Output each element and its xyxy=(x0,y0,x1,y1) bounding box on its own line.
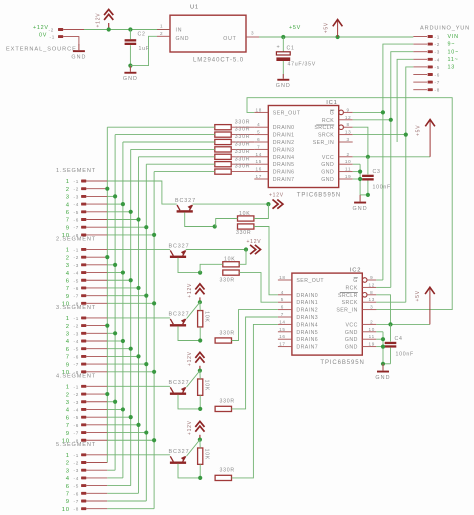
node junction C3 bottom xyxy=(366,193,370,197)
svg-text:ARDUINO_YUN: ARDUINO_YUN xyxy=(420,26,470,32)
wire 5.SEGMENT pin -8 to bus 7 xyxy=(107,508,154,510)
node junction IC1 RCK / 10~ bus xyxy=(389,118,393,122)
svg-text:GND: GND xyxy=(123,76,138,82)
svg-text:1: 1 xyxy=(66,179,70,185)
svg-text:C1: C1 xyxy=(287,45,295,51)
svg-text:BC327: BC327 xyxy=(169,449,190,455)
wire 1.SEGMENT pin -2 to bus 1 xyxy=(106,188,108,190)
wire 5.SEGMENT pin -5 to bus 4 xyxy=(107,485,130,487)
svg-text:G: G xyxy=(353,278,358,284)
svg-text:4: 4 xyxy=(281,290,284,295)
svg-text:18: 18 xyxy=(279,275,286,280)
svg-text:3: 3 xyxy=(347,137,350,142)
pin 16 of IC2 xyxy=(278,338,292,340)
pin 10 of IC2 xyxy=(362,331,376,333)
svg-text:10: 10 xyxy=(62,507,70,513)
svg-text:1: 1 xyxy=(66,316,70,322)
svg-text:10K: 10K xyxy=(203,311,209,322)
resistor 10K Q1 pullup xyxy=(238,216,254,221)
node junction bus 4 / 4.SEGMENT pin -5 xyxy=(129,415,133,419)
wire 5.SEGMENT common to Q5 collector xyxy=(107,454,170,456)
node junction bus 7 / 3.SEGMENT pin -8 xyxy=(152,370,156,374)
node junction C4 bottom xyxy=(381,362,385,366)
svg-text:SER_IN: SER_IN xyxy=(336,308,357,314)
svg-text:8: 8 xyxy=(347,122,350,127)
svg-text:TPIC6B595N: TPIC6B595N xyxy=(297,192,341,198)
svg-text:-2: -2 xyxy=(74,392,80,397)
pin 5 of IC2 xyxy=(278,301,292,303)
resistor R4 330R segment bank xyxy=(215,147,231,152)
svg-text:330R: 330R xyxy=(235,156,250,162)
svg-text:13: 13 xyxy=(368,297,375,302)
wire bus column 3 vertical xyxy=(122,142,124,478)
wire bus column 2 vertical xyxy=(114,135,116,471)
pin 2 +12V of EXTERNAL_SOURCE xyxy=(58,28,63,31)
pin 1 0V of EXTERNAL_SOURCE xyxy=(58,35,63,38)
svg-text:VCC: VCC xyxy=(345,322,357,328)
svg-text:GND: GND xyxy=(345,337,358,343)
node junction Q5 +12V xyxy=(198,438,202,442)
pin 13 of IC1 xyxy=(339,134,353,136)
svg-text:-6: -6 xyxy=(74,354,80,359)
wire bus column 5 vertical xyxy=(138,157,140,494)
svg-text:19: 19 xyxy=(345,174,352,179)
svg-text:SRCK: SRCK xyxy=(318,133,334,139)
capacitor C1 47uF/35V polarized xyxy=(282,37,284,52)
svg-text:-4: -4 xyxy=(74,339,80,344)
pin 6 of IC1 xyxy=(254,141,268,143)
node junction bus 4 / 3.SEGMENT pin -5 xyxy=(129,347,133,351)
svg-text:47uF/35V: 47uF/35V xyxy=(288,62,317,68)
node junction bus 4 / 2.SEGMENT pin -5 xyxy=(129,278,133,282)
wire Q4 330R to IC2 drain xyxy=(232,317,278,409)
wire Q4 base xyxy=(178,395,200,409)
pin 11 of IC2 xyxy=(362,338,376,340)
node junction Q2 emitter +12V xyxy=(244,247,248,251)
svg-text:DRAIN0: DRAIN0 xyxy=(273,125,295,131)
svg-text:GND: GND xyxy=(321,177,334,183)
svg-text:12: 12 xyxy=(368,282,375,287)
svg-text:2: 2 xyxy=(66,392,70,398)
svg-text:-2: -2 xyxy=(435,42,441,47)
node junction bus 1 / 3.SEGMENT pin -2 xyxy=(105,324,109,328)
svg-text:GND: GND xyxy=(321,162,334,168)
svg-text:RCK: RCK xyxy=(345,285,357,291)
svg-text:GND: GND xyxy=(345,345,358,351)
svg-text:6: 6 xyxy=(66,278,70,284)
svg-text:11: 11 xyxy=(369,334,375,339)
svg-text:9: 9 xyxy=(347,107,350,112)
svg-text:-3: -3 xyxy=(74,263,80,268)
svg-text:2: 2 xyxy=(370,319,373,324)
wire IC2 SRCLR tie to VCC xyxy=(376,295,390,325)
svg-text:7: 7 xyxy=(281,312,284,317)
wire resistor R5 to IC1 DRAIN4 xyxy=(231,156,254,158)
wire 2.SEGMENT pin -4 to bus 3 xyxy=(107,272,123,274)
svg-text:7: 7 xyxy=(66,492,70,498)
svg-text:9: 9 xyxy=(66,499,70,505)
wire resistor R7 to bus column 7 xyxy=(154,171,215,173)
svg-text:-2: -2 xyxy=(49,28,55,33)
svg-text:4: 4 xyxy=(66,271,70,277)
svg-text:-7: -7 xyxy=(74,431,80,436)
svg-text:BC327: BC327 xyxy=(175,198,196,204)
resistor 10K Q2 pullup xyxy=(223,262,239,267)
pin 7 of ARDUINO_YUN xyxy=(413,81,427,83)
ground GND below C4 xyxy=(382,364,384,371)
resistor R3 330R segment bank xyxy=(215,139,231,144)
node junction rail / C1 xyxy=(281,35,285,39)
svg-text:3: 3 xyxy=(66,263,70,269)
wire resistor R3 to bus column 3 xyxy=(123,141,215,143)
svg-text:-1: -1 xyxy=(74,247,80,252)
wire resistor R3 to IC1 DRAIN2 xyxy=(231,141,254,143)
wire resistor R7 to IC1 DRAIN6 xyxy=(231,171,254,173)
pin 14 of IC2 xyxy=(278,323,292,325)
resistor 330R Q4 base xyxy=(215,406,231,411)
svg-text:-4: -4 xyxy=(74,407,80,412)
wire Q1 330R to IC2 DRAIN0 xyxy=(254,227,278,295)
node junction Q2 base resistors xyxy=(198,271,202,275)
wire resistor R5 to bus column 5 xyxy=(139,156,215,158)
svg-text:IN: IN xyxy=(176,28,183,34)
svg-text:DRAIN1: DRAIN1 xyxy=(296,300,318,306)
pin 9 of IC1 xyxy=(339,110,344,115)
svg-text:+5V: +5V xyxy=(415,290,421,301)
svg-text:+12V: +12V xyxy=(187,351,193,366)
wire IC1 G to 9~ bus xyxy=(353,111,383,113)
wire 4.SEGMENT pin -6 to bus 5 xyxy=(107,424,138,426)
wire 5.SEGMENT pin -3 to bus 2 xyxy=(107,469,115,471)
svg-text:1: 1 xyxy=(160,24,163,29)
node junction rail / +5V supply xyxy=(336,35,340,39)
svg-text:C2: C2 xyxy=(138,32,146,38)
resistor R5 330R segment bank xyxy=(215,154,231,159)
svg-text:-7: -7 xyxy=(74,362,80,367)
svg-text:OUT: OUT xyxy=(223,36,236,42)
svg-text:+5V: +5V xyxy=(289,25,301,31)
svg-text:8: 8 xyxy=(370,290,373,295)
svg-text:+12V: +12V xyxy=(247,239,262,245)
svg-text:-3: -3 xyxy=(74,331,80,336)
wire Q5 base xyxy=(178,464,200,478)
node junction Q3 +12V xyxy=(198,300,202,304)
capacitor C4 100nF xyxy=(390,324,392,341)
svg-text:10K: 10K xyxy=(203,449,209,460)
wire 2.SEGMENT common to Q2 collector xyxy=(107,248,170,250)
svg-text:-5: -5 xyxy=(74,484,80,489)
pin 11 of IC1 xyxy=(339,171,353,173)
svg-text:-5: -5 xyxy=(435,65,441,70)
pin 6 of ARDUINO_YUN xyxy=(413,74,427,76)
svg-text:3: 3 xyxy=(251,31,254,36)
svg-text:+12V: +12V xyxy=(269,192,284,198)
svg-text:330R: 330R xyxy=(220,399,235,405)
svg-text:-1: -1 xyxy=(74,453,80,458)
wire 1.SEGMENT pin -7 to bus 6 xyxy=(107,226,146,228)
svg-text:-6: -6 xyxy=(74,286,80,291)
svg-text:RCK: RCK xyxy=(322,118,334,124)
svg-text:C3: C3 xyxy=(373,169,381,175)
svg-text:9: 9 xyxy=(66,294,70,300)
pin 1 IN of U1 xyxy=(157,29,170,31)
pin 2 of IC1 xyxy=(339,156,353,158)
svg-text:1uF: 1uF xyxy=(139,46,150,52)
node junction bus 5 / 2.SEGMENT pin -6 xyxy=(136,286,140,290)
wire 2.SEGMENT pin -2 to bus 1 xyxy=(106,256,108,258)
wire 4.SEGMENT pin -3 to bus 2 xyxy=(107,401,115,403)
svg-text:-8: -8 xyxy=(74,507,80,512)
node junction Q1 emitter +12V xyxy=(266,202,270,206)
svg-text:DRAIN1: DRAIN1 xyxy=(273,133,295,139)
svg-text:SRCK: SRCK xyxy=(342,300,358,306)
wire Q2 emitter to +12V xyxy=(186,249,246,251)
resistor R2 330R segment bank xyxy=(215,132,231,137)
wire Q1 base xyxy=(185,212,215,226)
svg-text:DRAIN6: DRAIN6 xyxy=(296,337,318,343)
wire 5.SEGMENT pin -6 to bus 5 xyxy=(107,492,138,494)
svg-text:-4: -4 xyxy=(74,202,80,207)
pin 7 of IC1 xyxy=(254,148,268,150)
svg-text:2: 2 xyxy=(160,31,163,36)
svg-text:-1: -1 xyxy=(50,35,56,40)
svg-text:GND: GND xyxy=(345,330,358,336)
pin 8 of IC2 xyxy=(362,293,367,298)
svg-text:BC327: BC327 xyxy=(169,312,190,318)
svg-text:1.SEGMENT: 1.SEGMENT xyxy=(56,168,96,174)
svg-text:-7: -7 xyxy=(435,80,441,85)
pin 4 of IC1 xyxy=(254,126,268,128)
svg-text:DRAIN5: DRAIN5 xyxy=(273,162,295,168)
resistor 10K Q5 pullup vertical xyxy=(198,448,203,464)
svg-text:-1: -1 xyxy=(74,316,80,321)
svg-text:17: 17 xyxy=(255,174,262,179)
wire IC2 GND pins join xyxy=(376,331,383,333)
resistor 330R Q1 base xyxy=(238,224,254,229)
svg-text:330R: 330R xyxy=(235,119,250,125)
svg-text:330R: 330R xyxy=(220,468,235,474)
capacitor C2 1uF xyxy=(129,30,131,40)
node junction bus 3 / 1.SEGMENT pin -4 xyxy=(121,202,125,206)
svg-text:3: 3 xyxy=(66,195,70,201)
svg-text:3: 3 xyxy=(370,305,373,310)
wire Q3 base xyxy=(178,326,200,340)
svg-text:3: 3 xyxy=(66,468,70,474)
svg-text:10: 10 xyxy=(345,159,352,164)
wire resistor R2 to bus column 2 xyxy=(115,134,215,136)
wire IC2 SRCK to 13 bus xyxy=(376,301,406,303)
node junction bus 2 / 2.SEGMENT pin -3 xyxy=(113,263,117,267)
resistor 10K Q4 pullup vertical xyxy=(198,379,203,395)
node junction Q5 base resistors xyxy=(198,476,202,480)
wire 10K bottom Q4 xyxy=(199,395,201,409)
wire 3.SEGMENT pin -5 to bus 4 xyxy=(107,348,130,350)
wire Q4 emitter to +12V node xyxy=(187,371,200,388)
pin 9 of IC2 xyxy=(362,278,367,283)
svg-text:9: 9 xyxy=(66,362,70,368)
svg-text:6: 6 xyxy=(66,415,70,421)
wire 3.SEGMENT pin -7 to bus 6 xyxy=(107,363,146,365)
node junction bus 6 / 4.SEGMENT pin -7 xyxy=(144,430,148,434)
svg-text:DRAIN5: DRAIN5 xyxy=(296,330,318,336)
wire 1.SEGMENT pin -5 to bus 4 xyxy=(107,211,130,213)
node junction bus 2 / 1.SEGMENT pin -3 xyxy=(113,194,117,198)
svg-text:-1: -1 xyxy=(74,384,80,389)
svg-text:GND: GND xyxy=(71,55,86,61)
svg-text:DRAIN4: DRAIN4 xyxy=(273,155,295,161)
node junction IC1 G / 9~ bus xyxy=(381,110,385,114)
svg-text:GND: GND xyxy=(321,170,334,176)
svg-text:2: 2 xyxy=(66,324,70,330)
svg-text:4: 4 xyxy=(66,476,70,482)
svg-text:VCC: VCC xyxy=(322,155,334,161)
svg-text:0V: 0V xyxy=(39,32,47,38)
wire Q5 330R to IC2 drain xyxy=(232,324,278,478)
svg-text:-3: -3 xyxy=(435,50,441,55)
svg-text:3: 3 xyxy=(66,332,70,338)
svg-text:4: 4 xyxy=(257,122,260,127)
supply +12V arrow at Q2 xyxy=(250,245,256,254)
supply +5V arrow at IC1 xyxy=(429,121,431,157)
wire 5.SEGMENT pin -7 to bus 6 xyxy=(107,500,146,502)
svg-text:TPIC6B595N: TPIC6B595N xyxy=(320,360,364,366)
supply +12V arrow at Q4 xyxy=(195,352,204,358)
node junction bus 7 / 2.SEGMENT pin -8 xyxy=(152,301,156,305)
svg-text:19: 19 xyxy=(368,342,375,347)
node junction bus 3 / 4.SEGMENT pin -4 xyxy=(121,407,125,411)
wire bus column 4 vertical xyxy=(130,149,132,485)
svg-text:12: 12 xyxy=(345,115,352,120)
ground GND below C3 xyxy=(359,195,361,202)
pin 6 of IC2 xyxy=(278,309,292,311)
pin 18 of IC1 xyxy=(254,111,268,113)
node junction Q3 base resistors xyxy=(198,338,202,342)
pin 18 of IC2 xyxy=(278,279,292,281)
svg-text:5: 5 xyxy=(257,130,260,135)
node junction IC2 GND pins xyxy=(381,337,385,341)
wire 4.SEGMENT pin -8 to bus 7 xyxy=(107,439,154,441)
wire resistor R4 to bus column 4 xyxy=(131,148,215,150)
wire 4.SEGMENT pin -4 to bus 3 xyxy=(107,408,123,410)
svg-text:11~: 11~ xyxy=(448,57,459,63)
svg-text:6: 6 xyxy=(66,484,70,490)
node junction bus 5 / 4.SEGMENT pin -6 xyxy=(136,423,140,427)
svg-text:+5V: +5V xyxy=(324,22,330,33)
svg-text:7: 7 xyxy=(66,355,70,361)
wire +12V input rail xyxy=(63,29,84,31)
wire 4.SEGMENT pin -7 to bus 6 xyxy=(107,432,146,434)
svg-text:VIN: VIN xyxy=(448,34,459,40)
node junction Q4 base resistors xyxy=(198,407,202,411)
svg-text:BC327: BC327 xyxy=(169,243,190,249)
pin 3 of IC2 xyxy=(362,309,376,311)
pin 8 of ARDUINO_YUN xyxy=(413,89,427,91)
svg-text:-8: -8 xyxy=(435,88,441,93)
node junction Q1 base resistors xyxy=(213,224,217,228)
svg-text:GND: GND xyxy=(276,83,291,89)
wire resistor R2 to IC1 DRAIN1 xyxy=(231,134,254,136)
svg-text:1: 1 xyxy=(66,248,70,254)
node junction bus 3 / 2.SEGMENT pin -4 xyxy=(121,270,125,274)
svg-text:-2: -2 xyxy=(74,255,80,260)
wire IC1 SRCK to 13 bus xyxy=(353,134,406,136)
svg-text:-3: -3 xyxy=(74,468,80,473)
svg-text:SER_OUT: SER_OUT xyxy=(273,110,301,116)
svg-text:14: 14 xyxy=(255,152,262,157)
svg-text:4: 4 xyxy=(66,202,70,208)
svg-text:U1: U1 xyxy=(190,5,199,11)
svg-text:2: 2 xyxy=(347,152,350,157)
wire U1 GND pin to C2 bottom xyxy=(130,36,157,65)
pin 13 of IC2 xyxy=(362,301,376,303)
pin 15 of IC2 xyxy=(278,331,292,333)
pin 8 of IC1 xyxy=(339,125,344,130)
svg-text:C4: C4 xyxy=(395,336,403,342)
wire resistor R1 to IC1 DRAIN0 xyxy=(231,126,254,128)
wire 1.SEGMENT common to Q1 collector jog xyxy=(107,181,177,204)
pin 14 of IC1 xyxy=(254,156,268,158)
svg-text:+: + xyxy=(277,45,281,51)
pin 1 of ARDUINO_YUN xyxy=(413,36,427,38)
wire 3.SEGMENT pin -2 to bus 1 xyxy=(106,325,108,327)
svg-text:-6: -6 xyxy=(74,491,80,496)
svg-text:10K: 10K xyxy=(224,257,235,263)
svg-text:9~: 9~ xyxy=(448,42,456,48)
wire resistor R1 to bus column 1 xyxy=(107,126,215,128)
svg-text:DRAIN7: DRAIN7 xyxy=(273,177,295,183)
resistor R6 330R segment bank xyxy=(215,162,231,167)
svg-text:4.SEGMENT: 4.SEGMENT xyxy=(56,373,96,379)
svg-text:7: 7 xyxy=(66,286,70,292)
wire ARDUINO pin5 13 bus down xyxy=(406,67,414,302)
svg-text:-6: -6 xyxy=(74,423,80,428)
shift register IC1 TPIC6B595N xyxy=(268,106,338,188)
pin 2 GND of U1 xyxy=(157,35,170,37)
pin 17 of IC1 xyxy=(254,178,268,180)
svg-text:-2: -2 xyxy=(74,187,80,192)
resistor 330R Q5 base xyxy=(215,475,231,480)
wire IC1 VCC to +5V xyxy=(353,156,430,158)
svg-text:13: 13 xyxy=(345,130,352,135)
svg-text:6: 6 xyxy=(257,137,260,142)
svg-text:10K: 10K xyxy=(203,380,209,391)
pin 3 of IC1 xyxy=(339,141,353,143)
shift register IC2 TPIC6B595N xyxy=(292,273,362,355)
svg-text:6: 6 xyxy=(66,347,70,353)
svg-text:GND: GND xyxy=(176,36,190,42)
svg-text:1: 1 xyxy=(66,385,70,391)
wire 2.SEGMENT pin -3 to bus 2 xyxy=(107,264,115,266)
wire 10K right to +12V Q1 xyxy=(254,204,269,218)
svg-text:-1: -1 xyxy=(74,179,80,184)
svg-text:2: 2 xyxy=(66,187,70,193)
pin 5 of IC1 xyxy=(254,134,268,136)
wire Q5 emitter to +12V node xyxy=(187,440,200,457)
svg-text:DRAIN2: DRAIN2 xyxy=(273,140,295,146)
svg-text:330R: 330R xyxy=(236,230,251,236)
wire ARDUINO pin4 11~ to IC1 SER_IN xyxy=(397,59,413,142)
svg-text:-5: -5 xyxy=(74,415,80,420)
pin 15 of IC1 xyxy=(254,163,268,165)
wire Q3 emitter to +12V node xyxy=(187,302,200,319)
wire 2.SEGMENT pin -7 to bus 6 xyxy=(107,295,146,297)
wire 1.SEGMENT pin -6 to bus 5 xyxy=(107,219,138,221)
wire bus column 6 vertical xyxy=(145,164,147,501)
resistor 330R Q2 base xyxy=(223,270,239,275)
svg-text:+5V: +5V xyxy=(416,125,422,136)
svg-text:330R: 330R xyxy=(220,330,235,336)
node junction +12V rail / supply xyxy=(107,27,111,31)
